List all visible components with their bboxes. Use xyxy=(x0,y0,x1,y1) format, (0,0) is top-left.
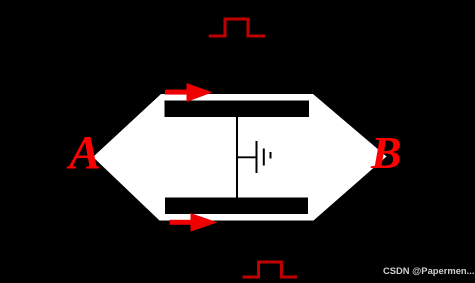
ground (rotated, bar 2) xyxy=(263,149,265,166)
arrow (top, signal direction) xyxy=(165,83,213,102)
arrow (bottom, signal direction) xyxy=(170,213,218,232)
bottom electrode bar xyxy=(165,198,308,215)
svg-text:B: B xyxy=(370,127,402,178)
pulse waveform (top clock) xyxy=(209,19,266,36)
svg-text:A: A xyxy=(66,127,101,180)
svg-text:CSDN @Papermen...: CSDN @Papermen... xyxy=(383,265,474,276)
device body (white hexagon) xyxy=(93,94,387,221)
wire (ground branch) xyxy=(237,156,257,158)
pulse waveform (bottom clock) xyxy=(243,262,298,277)
ground (rotated, bar 3) xyxy=(270,152,272,159)
ground (rotated, bar 1) xyxy=(256,141,258,173)
wire (vertical center line) xyxy=(236,117,238,198)
top electrode bar xyxy=(165,101,310,118)
